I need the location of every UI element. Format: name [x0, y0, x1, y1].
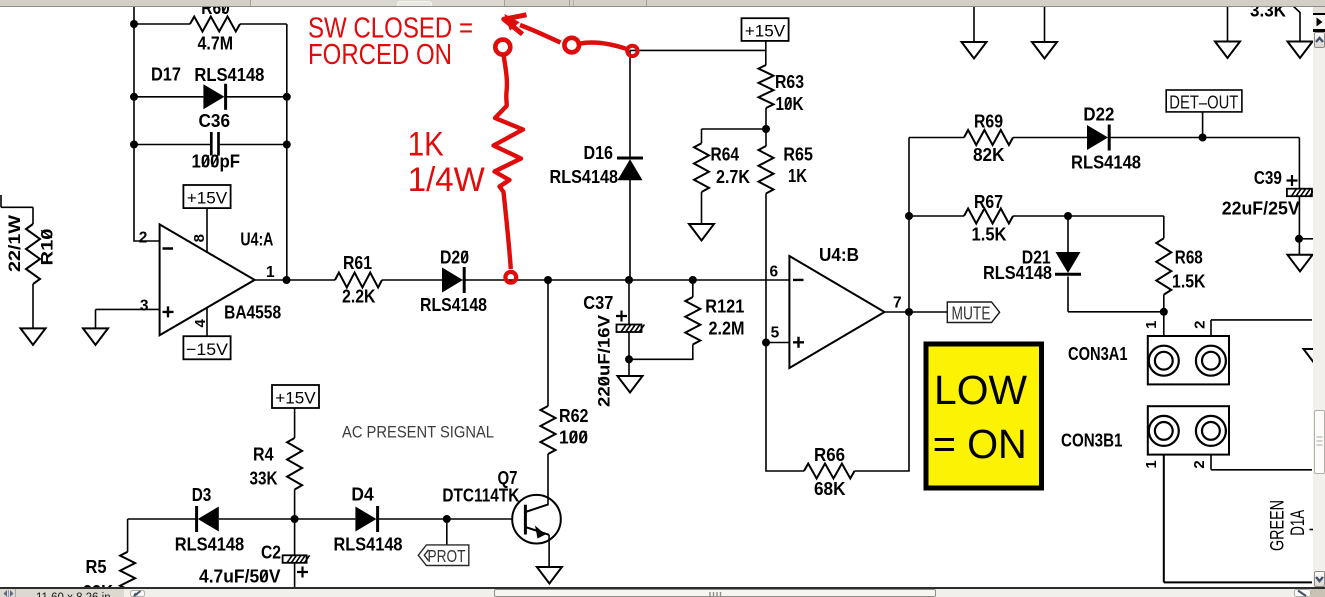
label AC PRESENT SIGNAL	[342, 423, 494, 442]
svg-text:DTC114TK: DTC114TK	[442, 485, 519, 505]
svg-text:4.7M: 4.7M	[198, 34, 234, 54]
capacitor C36	[134, 132, 287, 156]
diode D22	[1087, 125, 1299, 151]
wire left vertical rail x=134	[134, 6, 160, 241]
svg-text:PROT: PROT	[428, 546, 466, 566]
svg-text:1K: 1K	[408, 125, 444, 163]
label C2	[261, 543, 281, 563]
svg-text:2: 2	[1191, 460, 1208, 468]
pin 4 label	[192, 318, 209, 327]
label 22/1W	[5, 214, 24, 272]
pin 5 label	[771, 325, 780, 342]
node R4/C2 junction	[291, 515, 299, 523]
label R60 value 4.7M	[198, 0, 234, 54]
svg-text:33K: 33K	[250, 469, 278, 489]
label R121 2.2M	[705, 297, 744, 339]
label D3 RLS4148	[175, 485, 245, 555]
svg-text:+15V: +15V	[275, 388, 316, 407]
node R121 branch	[689, 276, 697, 284]
diode D20	[442, 267, 789, 293]
ground partial right edge	[1304, 349, 1325, 366]
wire CON3B1 pin2	[1211, 455, 1312, 470]
wire top node row	[630, 49, 766, 51]
svg-text:+15V: +15V	[745, 22, 786, 41]
wire mute fb row y=216	[909, 215, 964, 217]
connector CON3B1	[1148, 406, 1229, 454]
svg-text:2.7K: 2.7K	[716, 167, 750, 187]
svg-text:D17: D17	[151, 65, 181, 85]
svg-text:R69: R69	[974, 112, 1003, 132]
label CON3A1	[1068, 344, 1128, 364]
label C39 plus	[1287, 175, 1298, 186]
pin 3 label	[140, 298, 149, 315]
label R66 68K	[814, 445, 846, 499]
node C37 bottom	[625, 355, 633, 363]
svg-text:1K: 1K	[788, 166, 807, 186]
svg-text:D4: D4	[351, 485, 373, 505]
svg-text:RLS4148: RLS4148	[420, 295, 487, 315]
svg-text:R64: R64	[711, 144, 740, 164]
diode D4	[355, 506, 525, 532]
annotation yellow note LOW = ON	[926, 344, 1042, 488]
capacitor C2	[283, 519, 310, 597]
label C37 plus	[616, 311, 627, 322]
wire R64 branch	[702, 129, 767, 143]
svg-text:R67: R67	[974, 192, 1003, 212]
wire feedback R66 loop	[766, 343, 804, 472]
svg-text:U4:B: U4:B	[819, 245, 859, 265]
annotation red switch	[495, 15, 637, 56]
label BA4558	[224, 303, 281, 323]
svg-text:C2: C2	[261, 543, 281, 563]
label C37 value	[595, 314, 614, 407]
pin 2 label CON3A1	[1191, 321, 1208, 329]
label R69 82K	[973, 112, 1005, 165]
pin 6 label	[770, 264, 779, 281]
node D17 row right	[283, 93, 291, 101]
svg-text:2: 2	[139, 229, 148, 246]
label D4 RLS4148	[334, 485, 403, 555]
svg-text:1: 1	[1143, 321, 1160, 329]
wire CON3B1 pin1	[1164, 455, 1312, 583]
flag MUTE	[947, 302, 999, 323]
label C39	[1254, 168, 1282, 188]
annotation red text 1K 1/4W	[408, 125, 485, 199]
svg-text:C36: C36	[199, 111, 231, 131]
status / horizontal scrollbar	[0, 587, 1325, 589]
svg-text:10K: 10K	[776, 94, 804, 114]
svg-text:FORCED ON: FORCED ON	[308, 39, 452, 71]
resistor R62	[541, 280, 556, 505]
label D17 RLS4148	[151, 65, 264, 85]
label U4:B	[819, 245, 859, 265]
svg-text:R121: R121	[705, 297, 744, 317]
svg-text:D16: D16	[584, 143, 614, 163]
ground top 3	[1215, 6, 1240, 58]
svg-text:D22: D22	[1083, 105, 1114, 125]
svg-text:D3: D3	[192, 485, 212, 505]
op-amp U4:B	[789, 256, 884, 368]
power +15V R4	[272, 385, 319, 438]
pin 8 label	[191, 234, 208, 242]
capacitor C39	[1287, 138, 1315, 255]
svg-text:R68: R68	[1175, 248, 1203, 268]
resistor R68	[1156, 216, 1171, 336]
svg-text:MUTE: MUTE	[952, 303, 991, 323]
label R4 33K	[250, 445, 278, 489]
resistor R65	[759, 146, 774, 343]
svg-text:U4:A: U4:A	[240, 230, 273, 250]
node C36 row right	[283, 141, 291, 149]
flag PROT	[418, 519, 469, 566]
label C39 value	[1222, 198, 1300, 218]
svg-text:68K: 68K	[814, 479, 846, 499]
pin 2 label CON3B1	[1191, 460, 1208, 468]
wire stub near D1A	[1310, 529, 1314, 531]
toolbar bottom strip	[0, 0, 1325, 7]
svg-text:D1A: D1A	[1288, 510, 1309, 536]
resistor R4	[287, 438, 302, 519]
node R62 branch	[544, 276, 552, 284]
label D16 RLS4148	[550, 143, 619, 187]
svg-text:LOW: LOW	[934, 367, 1027, 413]
label CON3B1	[1061, 430, 1123, 450]
svg-text:R62: R62	[559, 406, 589, 426]
svg-text:R5: R5	[86, 557, 107, 577]
svg-text:RLS4148: RLS4148	[194, 65, 264, 85]
label C37	[583, 293, 613, 313]
power +15V comparator	[742, 18, 789, 65]
label DET-OUT	[1166, 90, 1242, 138]
wire comparator rail x=909	[908, 138, 910, 313]
ground Q7 emitter	[537, 535, 562, 584]
ground top 2	[1032, 6, 1057, 59]
label R63 10K	[775, 72, 804, 114]
wire right rail of feedback x=286.8	[286, 24, 288, 280]
wire CON3A1 pin2	[1211, 320, 1312, 336]
wire pin5 input	[766, 342, 789, 344]
annotation red text SW CLOSED = FORCED ON	[308, 13, 473, 71]
pin 2 label	[139, 229, 148, 246]
diode D16	[617, 50, 643, 280]
node U4:A output	[283, 276, 291, 284]
svg-text:C39: C39	[1254, 168, 1282, 188]
resistor R64	[694, 143, 709, 224]
node R67 rail junction	[905, 212, 913, 220]
node D21 branch	[1064, 212, 1072, 220]
label C2 value	[199, 566, 281, 586]
op-amp U4:A	[160, 224, 255, 335]
node R68/D21/CON3A1 junction	[1160, 308, 1168, 316]
label R67 1.5K	[972, 192, 1007, 245]
svg-text:R4: R4	[253, 445, 274, 465]
wire C37 to R121 bottom	[629, 345, 693, 360]
svg-text:1/4W: 1/4W	[408, 161, 485, 199]
node D17 row left	[130, 93, 138, 101]
svg-text:R61: R61	[343, 253, 372, 273]
node pin5 junction	[762, 339, 770, 347]
svg-text:R63: R63	[775, 72, 804, 92]
pin 1 label CON3A1	[1143, 321, 1160, 329]
svg-text:1: 1	[266, 264, 275, 281]
svg-text:CON3B1: CON3B1	[1061, 430, 1123, 450]
svg-text:22uF/25V: 22uF/25V	[1222, 198, 1300, 218]
resistor R69	[964, 130, 1087, 145]
pin 1 label CON3B1	[1143, 460, 1160, 468]
label R62 100	[559, 406, 589, 448]
wire C39 node to edge	[1299, 238, 1314, 240]
node D16/C37 branch	[625, 276, 633, 284]
wire detector row y=137.5	[909, 137, 964, 139]
node C39 bottom	[1295, 235, 1303, 243]
svg-text:R66: R66	[814, 445, 845, 465]
svg-text:C37: C37	[583, 293, 613, 313]
ground C39	[1288, 255, 1313, 271]
svg-text:RLS4148: RLS4148	[550, 167, 619, 187]
label R5 33K	[83, 557, 113, 597]
svg-text:4.7uF/50V: 4.7uF/50V	[199, 566, 281, 586]
svg-text:RLS4148: RLS4148	[983, 263, 1052, 283]
resistor R121	[685, 280, 700, 345]
node C36 row left	[130, 141, 138, 149]
svg-text:2.2M: 2.2M	[709, 318, 745, 338]
ground R64	[689, 224, 714, 241]
diode D21	[1055, 216, 1164, 312]
diode D3	[197, 506, 356, 532]
node PROT branch	[443, 515, 451, 523]
label D21 RLS4148	[983, 248, 1052, 284]
svg-text:R65: R65	[783, 145, 813, 165]
label R68 1.5K	[1172, 248, 1206, 292]
svg-text:1: 1	[1143, 460, 1160, 468]
resistor R60	[134, 17, 287, 32]
label GREEN	[1267, 500, 1288, 551]
svg-text:22/1W: 22/1W	[5, 214, 24, 272]
power +15V U4:A pin8	[183, 185, 230, 252]
pin 7 label	[893, 295, 902, 312]
svg-text:RLS4148: RLS4148	[175, 535, 245, 555]
svg-text:3: 3	[140, 298, 149, 315]
power -15V U4:A pin4	[183, 307, 230, 359]
capacitor C37	[617, 280, 645, 359]
svg-text:1.5K: 1.5K	[972, 225, 1007, 245]
svg-text:1.5K: 1.5K	[1172, 271, 1206, 291]
wire D3 row	[128, 518, 198, 520]
svg-text:RLS4148: RLS4148	[1071, 152, 1141, 172]
resistor R63	[759, 65, 774, 146]
resistor R67	[964, 209, 1164, 224]
svg-text:= ON: = ON	[933, 421, 1027, 467]
label R10	[38, 229, 57, 266]
ground U4:A pin3	[83, 309, 108, 345]
diode D17	[134, 84, 287, 110]
svg-text:6: 6	[770, 264, 779, 281]
annotation red 1K resistor squiggle	[494, 55, 524, 283]
svg-text:GREEN: GREEN	[1267, 500, 1288, 551]
wire output to MUTE	[885, 311, 948, 313]
transistor Q7	[512, 495, 561, 544]
label Q7 DTC114TK	[442, 468, 519, 505]
svg-text:100pF: 100pF	[192, 152, 241, 172]
svg-text:RLS4148: RLS4148	[334, 535, 403, 555]
label U4:A	[240, 230, 273, 250]
svg-text:220uF/16V: 220uF/16V	[595, 314, 614, 407]
ground top 1	[962, 6, 987, 59]
svg-text:DET–OUT: DET–OUT	[1169, 92, 1238, 112]
label D22 RLS4148	[1071, 105, 1141, 173]
node U4:B output	[905, 308, 913, 316]
label D1A	[1288, 510, 1309, 536]
label C36 value 100pF	[192, 111, 241, 172]
wire U4:A pin3 input	[96, 308, 160, 310]
svg-text:5: 5	[771, 325, 780, 342]
ground top 4 with kink	[1288, 4, 1313, 58]
pin 1 label	[266, 264, 275, 281]
svg-text:CON3A1: CON3A1	[1068, 344, 1128, 364]
svg-text:8: 8	[191, 234, 208, 242]
label C2 plus	[297, 567, 308, 578]
label R64 2.7K	[711, 144, 751, 187]
vertical scrollbar	[1313, 7, 1325, 597]
svg-text:−15V: −15V	[186, 340, 229, 359]
node R63/R64/R65 junction	[762, 125, 770, 133]
svg-text:BA4558: BA4558	[224, 303, 281, 323]
label R65 1K	[783, 145, 813, 186]
label 3.3K	[1250, 1, 1286, 21]
svg-text:7: 7	[893, 295, 902, 312]
resistor R10	[1, 195, 40, 328]
wire U4:A output row	[255, 279, 335, 281]
ground R10	[21, 328, 46, 345]
node left rail top junction	[130, 20, 138, 28]
label D20 RLS4148	[420, 247, 487, 315]
label R61 2.2K	[342, 253, 376, 307]
svg-text:82K: 82K	[973, 145, 1005, 165]
ground C37	[618, 359, 643, 392]
resistor R61	[335, 273, 442, 288]
svg-text:+15V: +15V	[187, 189, 228, 208]
node DET-OUT stem	[1199, 134, 1207, 142]
svg-text:AC PRESENT SIGNAL: AC PRESENT SIGNAL	[342, 423, 494, 442]
connector CON3A1	[1148, 336, 1229, 384]
resistor R5	[120, 519, 135, 597]
resistor R66	[804, 312, 909, 479]
svg-text:2: 2	[1191, 321, 1208, 329]
svg-text:2.2K: 2.2K	[342, 287, 376, 307]
